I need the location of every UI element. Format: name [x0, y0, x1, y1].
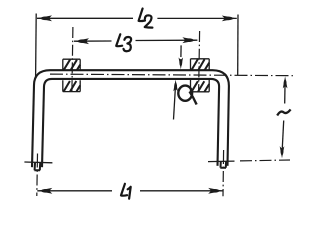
handle inner contour — [42, 79, 219, 167]
label L1 — [121, 184, 131, 199]
left shoulder tick — [24, 161, 52, 164]
l dimension line lower — [282, 121, 283, 149]
right shoulder tick — [208, 160, 235, 163]
left panel hatching lower — [64, 81, 81, 92]
arrowhead L3 left — [74, 38, 89, 44]
right panel hatching lower — [192, 81, 210, 92]
left leg bottom centerline — [36, 154, 39, 197]
right panel section borders — [191, 59, 210, 92]
right panel hatching upper — [191, 59, 209, 70]
bar centerline (dash-dot) — [50, 74, 295, 76]
L3 dimension line — [74, 40, 197, 41]
arrowhead L3 right — [182, 37, 197, 43]
label d (rotated letter d: bowl with tail) — [178, 86, 196, 105]
right hole centerline — [199, 31, 200, 93]
left panel section borders — [63, 59, 80, 91]
L2 dimension line — [37, 17, 237, 19]
arrowhead l lower (down) — [280, 146, 285, 158]
arrowhead L2 right — [222, 16, 237, 22]
label L2 — [139, 9, 153, 28]
d dimension line lower — [174, 89, 176, 120]
arrowhead L2 left — [37, 15, 52, 21]
arrowhead L1 left — [37, 188, 52, 194]
left hole centerline — [72, 27, 73, 93]
arrowhead d lower (up) — [173, 80, 178, 92]
L2 left extension line — [35, 14, 38, 78]
right stud — [220, 161, 226, 167]
arrowhead l upper (up) — [283, 76, 288, 88]
label L3 — [116, 34, 131, 51]
label l (rotated letter l) — [277, 109, 290, 115]
L1 dimension line — [37, 190, 223, 192]
arrowhead d upper (down) — [179, 57, 184, 69]
L2 right extension line — [237, 15, 239, 76]
left panel hatching upper — [64, 59, 81, 70]
left stud — [34, 163, 40, 171]
handle outer contour — [32, 70, 229, 167]
l dimension line upper — [284, 86, 286, 104]
right shoulder centerline extension — [240, 159, 290, 162]
d dimension line upper — [180, 45, 182, 57]
arrowhead L1 right — [208, 188, 223, 194]
right leg bottom centerline — [222, 150, 225, 196]
